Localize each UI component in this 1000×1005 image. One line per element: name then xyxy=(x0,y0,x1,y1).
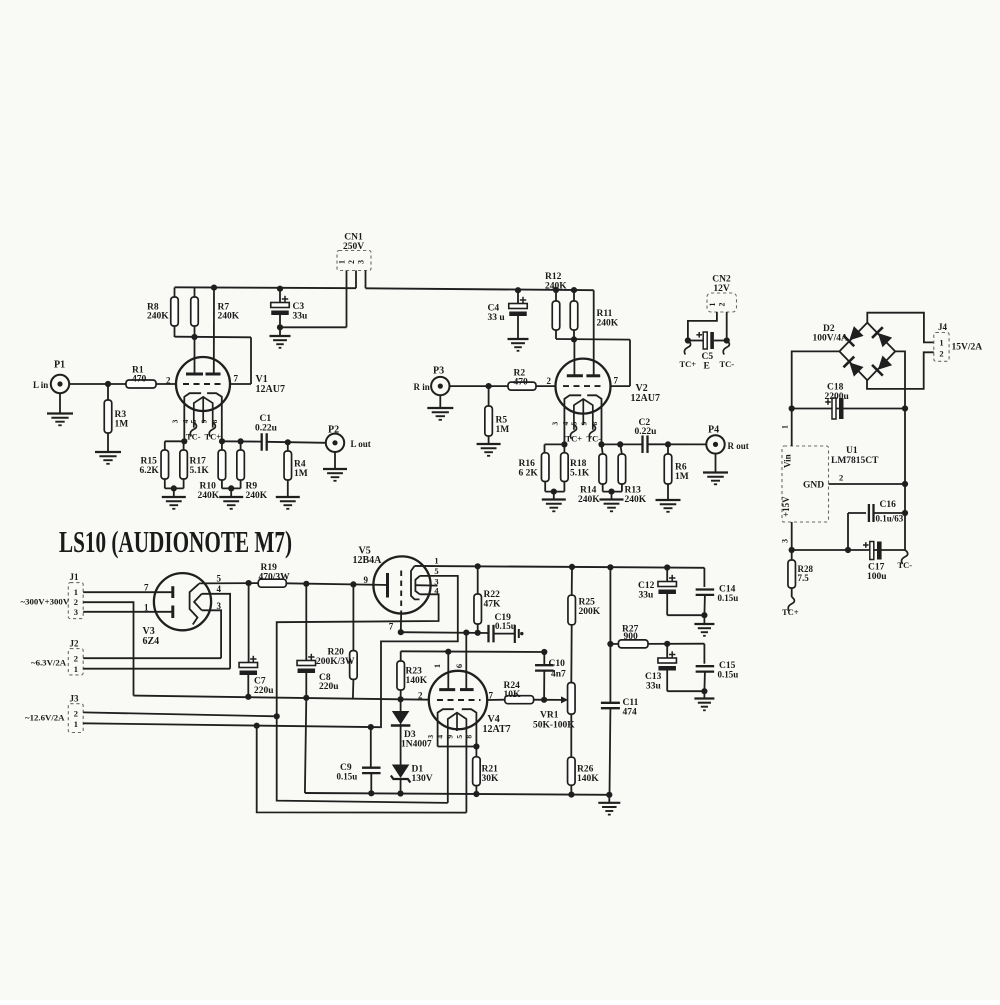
connector P1 (L in jack) xyxy=(51,375,69,393)
wire 0V rail xyxy=(134,696,401,700)
V5 cathode tap stub xyxy=(415,584,437,586)
node R22 top on B+ rail xyxy=(475,563,481,569)
svg-text:1: 1 xyxy=(338,260,347,264)
svg-text:TC+: TC+ xyxy=(566,434,583,444)
V4 cathode right staple xyxy=(462,709,477,746)
svg-text:12B4A: 12B4A xyxy=(353,555,383,566)
CN1 pin3 wire xyxy=(365,271,367,289)
wire +15V output rail xyxy=(792,549,905,551)
svg-text:TC-: TC- xyxy=(898,560,913,570)
svg-text:4: 4 xyxy=(217,584,222,594)
svg-text:D2: D2 xyxy=(823,324,835,334)
node C12 junction xyxy=(664,564,670,570)
svg-text:240K: 240K xyxy=(246,491,268,501)
node R11/plate1 junction xyxy=(571,336,577,342)
svg-text:474: 474 xyxy=(623,708,638,718)
svg-text:GND: GND xyxy=(803,481,824,491)
wire R16/R18 bottom rail xyxy=(545,491,564,493)
V1 cathode right staple xyxy=(207,393,222,441)
svg-text:TC-: TC- xyxy=(186,432,201,442)
svg-text:5: 5 xyxy=(455,735,464,739)
svg-text:4: 4 xyxy=(436,735,445,739)
wire C12 bottom to C14 bottom xyxy=(667,614,704,616)
V1 plate bar section 2 xyxy=(206,373,221,376)
svg-text:3: 3 xyxy=(217,601,222,611)
svg-text:R25: R25 xyxy=(579,598,596,608)
svg-text:1M: 1M xyxy=(675,472,689,482)
svg-text:7: 7 xyxy=(489,691,494,701)
wire ground rail vertical xyxy=(904,409,906,551)
svg-text:R18: R18 xyxy=(570,459,587,469)
svg-text:P4: P4 xyxy=(708,425,719,436)
svg-text:TC+: TC+ xyxy=(680,359,697,369)
wire R2 to V2 grid xyxy=(536,385,556,387)
svg-text:TC+: TC+ xyxy=(205,432,222,442)
resistor R25 200K xyxy=(569,564,575,570)
svg-text:12AU7: 12AU7 xyxy=(256,384,285,395)
wire rail V2 plate1 to grid2 xyxy=(556,338,630,341)
svg-text:D1: D1 xyxy=(412,765,424,775)
node V4 plate2 on grid rail xyxy=(463,630,469,636)
ground at R10/R9 xyxy=(230,488,232,497)
svg-text:1: 1 xyxy=(74,587,78,597)
svg-text:33u: 33u xyxy=(639,591,655,601)
potentiometer VR1 50K-100K xyxy=(568,683,576,715)
svg-text:VR1: VR1 xyxy=(540,711,559,721)
svg-text:R23: R23 xyxy=(406,667,423,677)
node R23/D3/V4-grid junction xyxy=(398,696,404,702)
V3 pin4 wire to J2 pin1 xyxy=(202,594,230,669)
svg-text:240K: 240K xyxy=(625,495,647,505)
svg-text:140K: 140K xyxy=(406,676,428,686)
bridge diode top-right xyxy=(872,327,893,348)
tube V3 6Z4 xyxy=(154,573,211,630)
TC- lead at ground rail xyxy=(902,550,908,564)
svg-text:3: 3 xyxy=(551,421,560,425)
node main ground junction xyxy=(606,792,612,798)
svg-text:~6.3V/2A: ~6.3V/2A xyxy=(31,658,67,668)
capacitor C9 0.15u xyxy=(368,724,374,730)
svg-text:R15: R15 xyxy=(141,457,158,467)
V2 cathode left staple xyxy=(564,395,581,444)
node C10 riser on plate1 rail xyxy=(541,649,547,655)
svg-text:3: 3 xyxy=(74,607,78,617)
node R24/C10 junction xyxy=(541,697,547,703)
svg-text:15V/2A: 15V/2A xyxy=(952,343,983,353)
wire V4 plate1 rail xyxy=(401,650,545,653)
wire C2 to R6/P4 xyxy=(648,443,707,445)
resistor R6 1M xyxy=(667,444,669,454)
svg-text:P2: P2 xyxy=(328,425,339,436)
svg-text:0.22u: 0.22u xyxy=(635,427,658,437)
svg-text:47K: 47K xyxy=(484,600,502,610)
svg-text:U1: U1 xyxy=(846,446,858,456)
svg-text:2: 2 xyxy=(166,376,171,386)
svg-text:6Z4: 6Z4 xyxy=(143,636,160,647)
svg-text:33 u: 33 u xyxy=(488,313,506,323)
node R27 left junction xyxy=(607,641,613,647)
svg-text:C1: C1 xyxy=(260,414,272,424)
J3 pin1 heater wire xyxy=(83,723,380,727)
svg-text:C13: C13 xyxy=(645,672,662,682)
wire V2 plate2 to B+ rail xyxy=(593,290,595,376)
capacitor C16 0.1u/63 xyxy=(848,512,866,514)
svg-text:C11: C11 xyxy=(623,698,639,708)
wire 12.6V heater line A xyxy=(277,716,448,803)
TC+ lead at CN2 xyxy=(684,341,690,355)
capacitor C13 33u xyxy=(666,644,668,658)
V2 cathode right staple xyxy=(587,395,601,444)
tube V4 12AT7 xyxy=(429,671,487,729)
V1 heater lead TC+ with squiggle xyxy=(209,423,215,437)
J2 pin2 wire xyxy=(83,657,221,659)
resistor R11 240K xyxy=(573,290,575,301)
svg-text:0.15u: 0.15u xyxy=(495,621,516,631)
svg-text:J3: J3 xyxy=(70,694,80,704)
V2 heater lead TC+ with squiggle xyxy=(570,425,576,439)
svg-text:R21: R21 xyxy=(482,765,499,775)
svg-text:6.2K: 6.2K xyxy=(140,466,160,476)
wire V1 plate2 to B+ rail xyxy=(213,288,215,374)
capacitor C2 0.22u xyxy=(641,435,643,453)
svg-text:R11: R11 xyxy=(597,309,613,319)
svg-text:CN2: CN2 xyxy=(712,275,731,285)
V4 heater tent xyxy=(448,713,467,735)
svg-text:200K: 200K xyxy=(579,607,601,617)
node heater B branch xyxy=(254,723,260,729)
node R22 bottom on grid rail xyxy=(475,630,481,636)
wire V2 pin7 riser xyxy=(629,340,631,387)
ground at R3 xyxy=(95,451,121,453)
ground at P4 xyxy=(715,454,717,473)
node R26 bottom xyxy=(568,792,574,798)
capacitor C7 220u xyxy=(248,583,250,662)
svg-text:TC-: TC- xyxy=(587,434,602,444)
vertical drop 0V to bias rail xyxy=(305,698,306,793)
V4 plate2 lead to grid rail xyxy=(465,633,467,690)
resistor R9 240K xyxy=(240,441,242,450)
regulator U1 LM7815CT xyxy=(782,446,829,522)
svg-text:1M: 1M xyxy=(496,425,510,435)
resistor R13 240K xyxy=(620,444,622,454)
capacitor C12 33u xyxy=(666,568,668,582)
V1 grid dashed line xyxy=(183,383,222,385)
capacitor C5 E xyxy=(685,337,691,343)
svg-text:1: 1 xyxy=(144,603,149,613)
svg-text:5: 5 xyxy=(217,574,222,584)
svg-text:0.1u/63: 0.1u/63 xyxy=(876,514,904,524)
resistor R4 1M xyxy=(287,442,289,451)
svg-text:CN1: CN1 xyxy=(344,233,363,243)
TC- lead at CN2 xyxy=(723,341,729,355)
capacitor C19 0.15u xyxy=(487,625,489,643)
svg-text:1N4007: 1N4007 xyxy=(401,740,432,750)
V5 plate bar xyxy=(386,573,389,598)
V3 plate bar pin1 xyxy=(171,606,174,619)
svg-text:0.15u: 0.15u xyxy=(718,593,739,603)
J1 pin1 wire to V3 plate 7 xyxy=(83,591,173,593)
svg-text:100V/4A: 100V/4A xyxy=(813,334,849,344)
V3 plate bar pin7 xyxy=(171,586,174,598)
svg-text:Vin: Vin xyxy=(783,454,793,468)
ground at R5 xyxy=(477,443,501,445)
connector J3 12.6V xyxy=(68,704,83,733)
wire P3 to R2 xyxy=(450,385,509,387)
svg-text:R out: R out xyxy=(728,441,749,451)
wire P1 to R1 xyxy=(69,383,126,385)
capacitor C10 4n7 xyxy=(543,652,545,665)
svg-text:TC-: TC- xyxy=(720,359,735,369)
ground at P3 xyxy=(439,395,441,408)
node D1 bottom xyxy=(397,790,403,796)
wire R1 to V1 grid pin 2 xyxy=(156,383,177,385)
bridge diode bottom-left xyxy=(843,357,864,378)
svg-text:R20: R20 xyxy=(328,648,345,658)
svg-text:2: 2 xyxy=(74,654,78,664)
svg-text:33u: 33u xyxy=(293,312,309,322)
V5 cathode inner bracket xyxy=(415,576,419,594)
svg-text:5.1K: 5.1K xyxy=(570,469,590,479)
svg-text:LM7815CT: LM7815CT xyxy=(831,456,879,466)
diode D3 1N4007 xyxy=(400,699,402,711)
ground at R14/R13 xyxy=(611,492,613,500)
wire V2 cathode2 rail xyxy=(602,443,643,445)
connector CN2 12V xyxy=(707,293,737,312)
bridge diode bottom-right xyxy=(872,355,893,376)
svg-text:12AT7: 12AT7 xyxy=(483,724,511,735)
svg-text:6: 6 xyxy=(454,664,464,668)
svg-text:J1: J1 xyxy=(70,572,80,582)
connector P4 (R out jack) xyxy=(706,435,724,453)
svg-text:R17: R17 xyxy=(190,457,207,467)
CN2 pin1 wire xyxy=(688,312,717,341)
J1 pin3 wire to V3 plate 1 xyxy=(83,611,173,613)
tube V2 12AU7 xyxy=(556,359,611,414)
node R4 top xyxy=(285,439,291,445)
svg-text:9: 9 xyxy=(445,735,454,739)
resistor R5 1M xyxy=(488,386,490,406)
V2 plate bar section 2 xyxy=(586,374,600,377)
svg-text:R6: R6 xyxy=(675,463,687,473)
svg-text:9: 9 xyxy=(580,421,589,425)
V3 pin5 wire to R19 xyxy=(199,582,258,584)
svg-text:P3: P3 xyxy=(433,366,444,377)
resistor R1 470 xyxy=(126,380,156,388)
ground at R15/R17 xyxy=(173,488,175,497)
node R12 top xyxy=(553,287,559,293)
V1 plate bar section 1 xyxy=(186,373,203,376)
node C13 junction xyxy=(664,641,670,647)
svg-text:7.5: 7.5 xyxy=(798,573,810,583)
connector J2 6.3V xyxy=(68,649,83,675)
svg-text:R22: R22 xyxy=(484,590,501,600)
ground at C3 xyxy=(279,327,281,336)
V3 cathode outer xyxy=(190,584,199,625)
resistor R26 140K xyxy=(570,714,572,757)
svg-text:470/3W: 470/3W xyxy=(259,573,291,583)
svg-text:1M: 1M xyxy=(115,420,129,430)
V4 plate bar 2 xyxy=(460,688,474,691)
svg-text:9: 9 xyxy=(200,419,209,423)
svg-text:TC+: TC+ xyxy=(782,607,799,617)
svg-text:R10: R10 xyxy=(200,482,217,492)
svg-text:1: 1 xyxy=(708,303,717,307)
node top rail to C11 column xyxy=(607,564,613,570)
node C8 bottom / drop junction xyxy=(303,695,309,701)
V3 cathode inner arrow xyxy=(194,594,202,611)
main ground symbol xyxy=(608,795,610,803)
svg-text:C10: C10 xyxy=(549,659,566,669)
wire R10/R9 bottom rail xyxy=(222,487,241,489)
svg-text:470: 470 xyxy=(514,378,529,388)
svg-text:3: 3 xyxy=(171,419,180,423)
resistor R7 240K xyxy=(194,288,196,297)
svg-text:R5: R5 xyxy=(496,416,508,426)
wire C1 to R4/P2 xyxy=(267,442,326,443)
wire V1 cathode2 rail xyxy=(222,440,262,442)
V1 heater lead TC- with squiggle xyxy=(190,423,196,437)
resistor R28 7.5 xyxy=(791,550,793,560)
V1 heater tent xyxy=(194,397,213,428)
resistor R3 1M xyxy=(107,384,109,400)
svg-text:R4: R4 xyxy=(294,460,306,470)
svg-text:C7: C7 xyxy=(254,677,266,687)
svg-text:2: 2 xyxy=(74,709,78,719)
svg-text:1: 1 xyxy=(74,719,78,729)
capacitor C14 0.15u xyxy=(703,568,705,587)
svg-text:130V: 130V xyxy=(412,774,433,784)
node C7 junction xyxy=(246,580,252,586)
svg-text:100u: 100u xyxy=(867,572,887,582)
connector J4 15V/2A xyxy=(934,333,949,362)
svg-text:~300V+300V: ~300V+300V xyxy=(21,597,70,607)
svg-text:1: 1 xyxy=(74,664,78,674)
svg-text:~12.6V/2A: ~12.6V/2A xyxy=(25,713,65,723)
svg-text:R12: R12 xyxy=(545,272,562,282)
svg-text:200K/3W: 200K/3W xyxy=(316,657,355,667)
svg-text:12AU7: 12AU7 xyxy=(631,393,660,404)
ground at P2 xyxy=(334,452,336,469)
wire bridge right corner to ground rail xyxy=(895,351,905,408)
svg-text:D3: D3 xyxy=(404,730,416,740)
svg-text:30K: 30K xyxy=(482,774,500,784)
capacitor C15 0.15u xyxy=(703,644,705,664)
resistor R10 240K xyxy=(221,441,223,450)
svg-text:7: 7 xyxy=(144,583,149,593)
ground at R6 xyxy=(656,499,681,501)
svg-text:1: 1 xyxy=(434,556,438,566)
svg-text:L out: L out xyxy=(351,439,371,449)
V5 heater pin5 route xyxy=(380,576,457,727)
wire rail plate1 to grid2 xyxy=(175,336,252,339)
svg-text:6 2K: 6 2K xyxy=(519,469,539,479)
svg-text:2: 2 xyxy=(74,597,78,607)
svg-text:240K: 240K xyxy=(578,495,600,505)
wire C18 rail xyxy=(792,408,905,410)
svg-text:R26: R26 xyxy=(577,765,594,775)
U1 pin3 wire xyxy=(791,522,793,550)
tube V5 12B4A xyxy=(373,556,430,613)
ground at R16/R18 xyxy=(553,492,555,500)
V5 cathode outer bracket xyxy=(411,566,420,600)
svg-text:1M: 1M xyxy=(294,469,308,479)
connector P3 (R in jack) xyxy=(431,377,449,395)
node P3/R5 junction xyxy=(486,383,492,389)
CN2 pin2 wire xyxy=(726,312,728,341)
V5 heater pin4 route xyxy=(277,594,439,716)
svg-text:L in: L in xyxy=(33,380,48,390)
node heater A junction xyxy=(274,713,280,719)
svg-text:250V: 250V xyxy=(343,242,364,252)
svg-text:1: 1 xyxy=(432,664,442,668)
svg-text:33u: 33u xyxy=(646,682,662,692)
svg-text:J2: J2 xyxy=(70,639,80,649)
resistor R23 140K xyxy=(400,651,402,661)
resistor R14 240K xyxy=(602,444,603,454)
svg-text:R9: R9 xyxy=(246,482,258,492)
svg-text:12V: 12V xyxy=(713,284,730,294)
node R21 bottom xyxy=(473,791,479,797)
J2 pin1 wire xyxy=(83,668,230,670)
node R11 top xyxy=(571,287,577,293)
svg-text:P1: P1 xyxy=(54,360,65,371)
V5 grid lead to rail xyxy=(400,612,402,632)
ground at P1 xyxy=(59,393,61,413)
svg-text:5.1K: 5.1K xyxy=(190,466,210,476)
resistor R22 47K xyxy=(477,566,479,594)
capacitor C4 33u xyxy=(515,287,521,293)
svg-text:C3: C3 xyxy=(293,302,305,312)
wire B+ rail right channel xyxy=(366,288,594,290)
svg-text:3: 3 xyxy=(357,260,366,264)
resistor R12 240K xyxy=(555,290,557,301)
svg-text:2: 2 xyxy=(839,473,843,483)
CN1 pin2 wire xyxy=(355,271,357,289)
wire bridge bottom to J4 pin2 xyxy=(867,352,934,389)
wire C3 to CN1 pin1 xyxy=(280,326,347,328)
svg-text:C12: C12 xyxy=(638,581,655,591)
wire pin7 riser xyxy=(250,337,252,384)
resistor R2 470 xyxy=(508,382,536,390)
J1 pin2 wire to 0V rail xyxy=(83,602,133,695)
svg-text:0.15u: 0.15u xyxy=(718,670,739,680)
wire bridge top to J4 pin1 xyxy=(867,313,934,343)
svg-text:7: 7 xyxy=(614,376,619,386)
svg-text:2: 2 xyxy=(939,349,943,359)
resistor R17 5.1K xyxy=(183,441,185,450)
V3 pin3 wire to J2 pin2 xyxy=(202,610,221,658)
svg-text:2200u: 2200u xyxy=(825,392,850,402)
tube V1 12AU7 xyxy=(176,357,230,411)
wire 12.6V heater line B xyxy=(257,726,467,813)
node junction P1/R3 xyxy=(105,381,111,387)
resistor R24 10K xyxy=(505,696,534,704)
wire V5 grid rail xyxy=(401,631,489,634)
svg-text:240K: 240K xyxy=(147,312,169,322)
wire V4 pin7 to R24 xyxy=(487,699,505,701)
node R20 junction xyxy=(350,581,356,587)
V4 cathode left staple xyxy=(438,709,454,746)
V2 heater tent xyxy=(574,399,593,430)
TC+ lead at R28 xyxy=(788,597,794,611)
V2 grid dashed line xyxy=(563,385,603,387)
wire bottom bias rail xyxy=(305,793,609,795)
V5 grid dashed xyxy=(400,571,402,613)
svg-text:240K: 240K xyxy=(198,491,220,501)
svg-text:240K: 240K xyxy=(218,312,240,322)
resistor R20 200K/3W xyxy=(352,584,354,650)
capacitor C3 33u xyxy=(277,286,283,292)
